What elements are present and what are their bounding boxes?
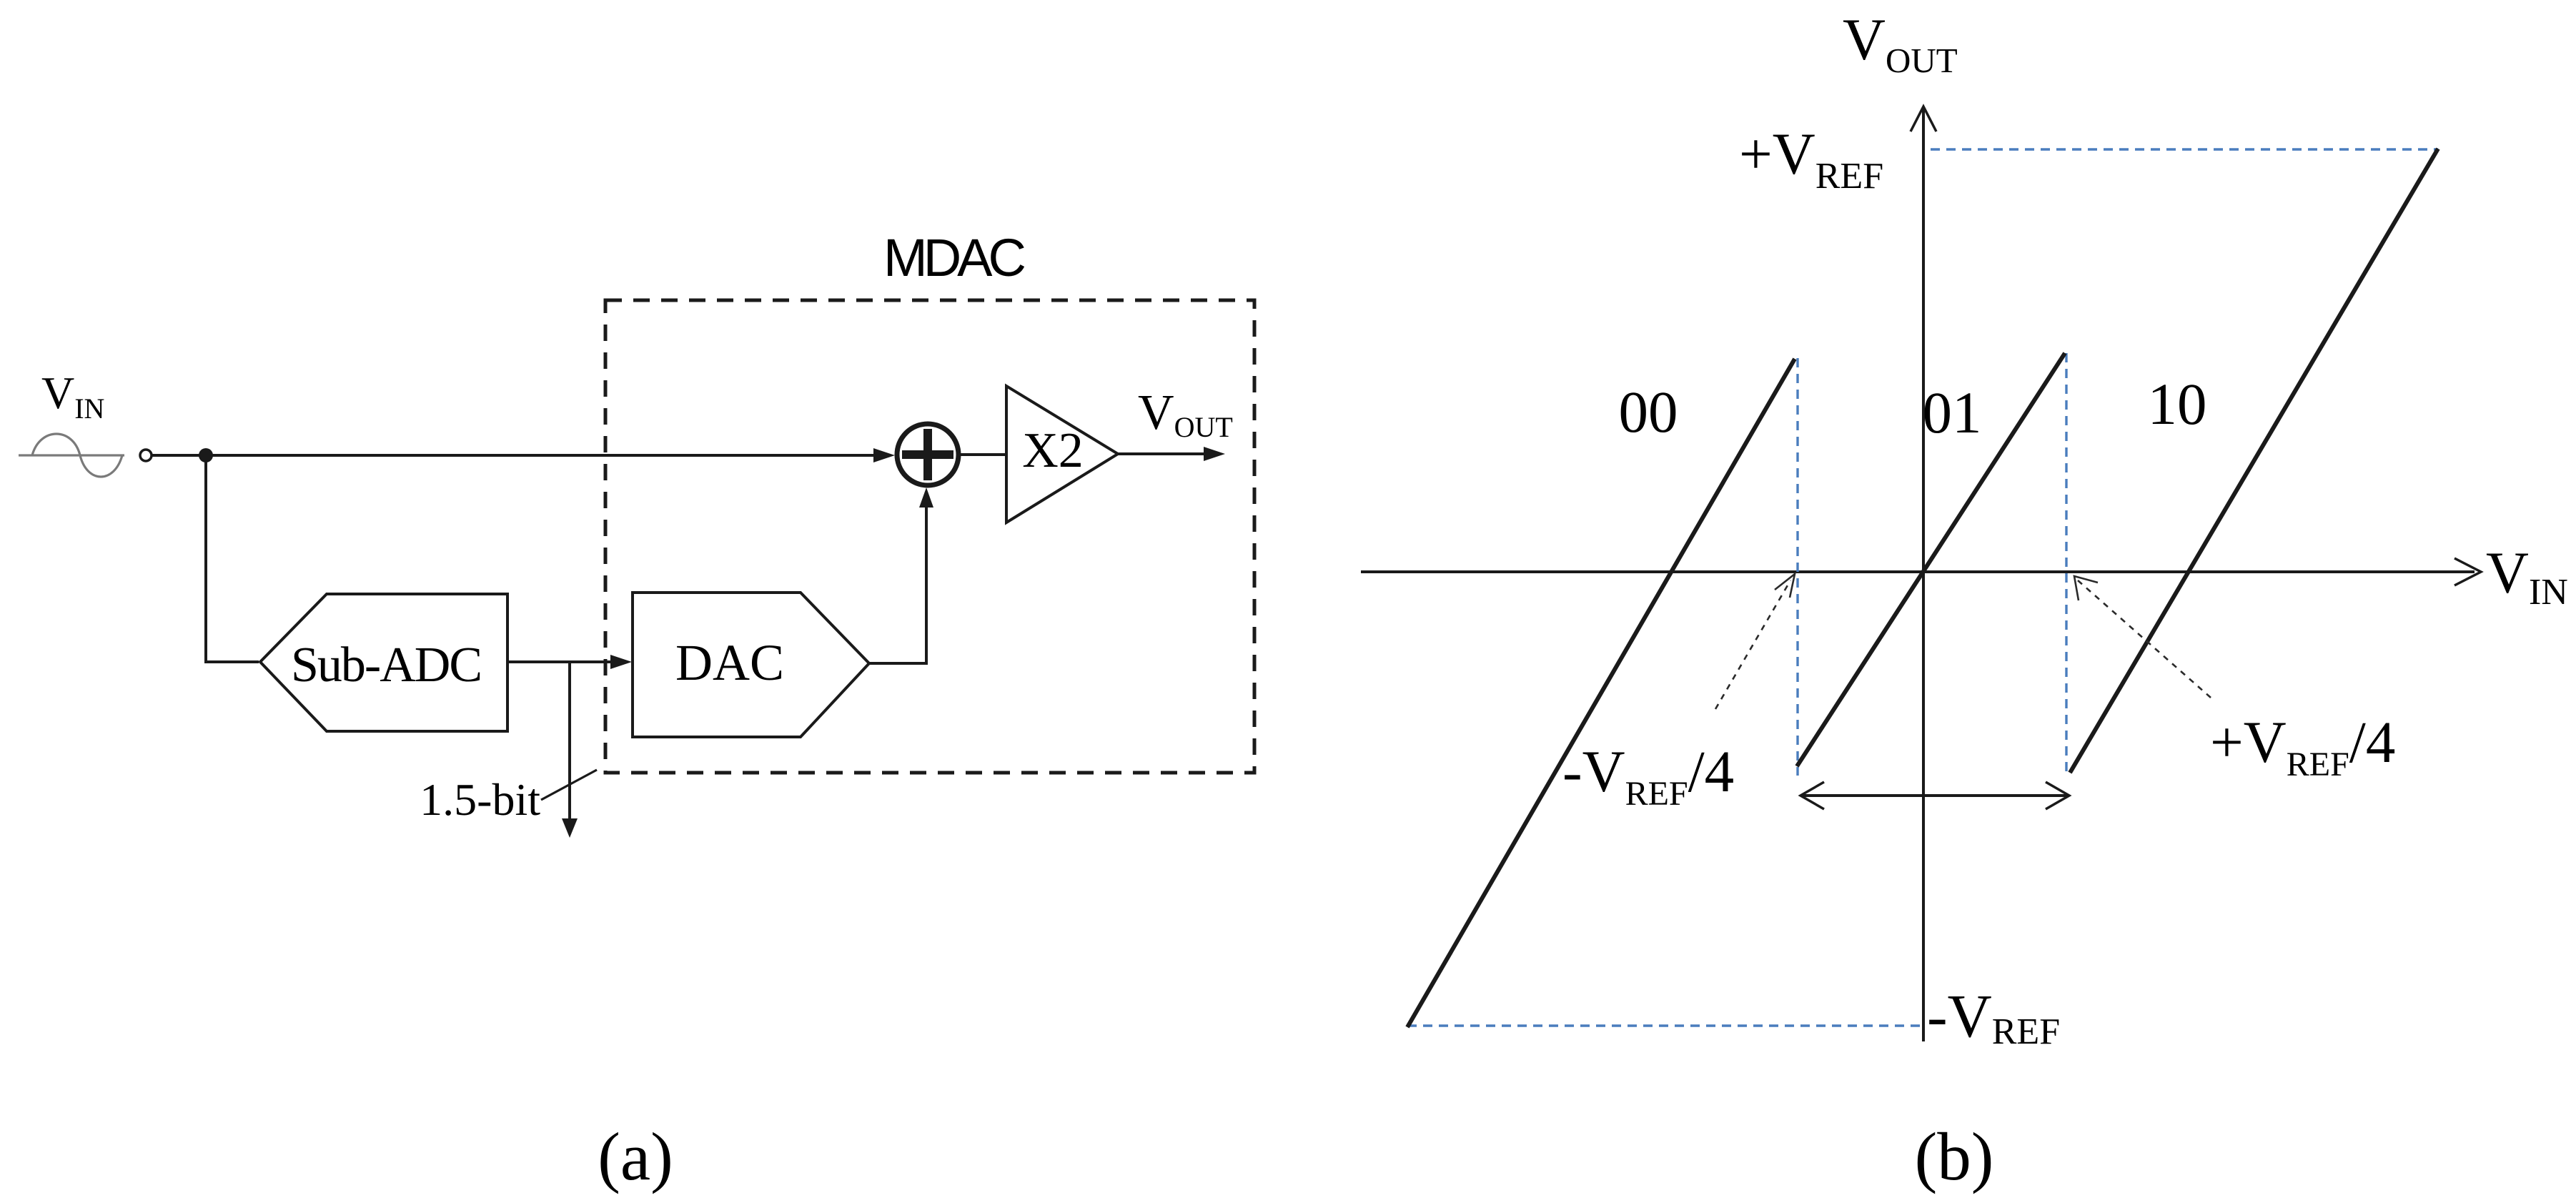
-VREF level label: [1927, 981, 2060, 1052]
wire Sub-ADC to DAC: [507, 655, 632, 669]
+VREF dashed level line: [1931, 148, 2438, 150]
svg-text:(a): (a): [598, 1119, 673, 1194]
transfer segment 10: [2070, 149, 2438, 773]
svg-text:Sub-ADC: Sub-ADC: [291, 638, 481, 693]
MDAC label: [883, 228, 1024, 287]
amplifier X2: [1006, 386, 1118, 523]
wire to Sub-ADC input: [204, 660, 259, 663]
svg-text:10: 10: [2148, 371, 2207, 437]
-VREF dashed level line: [1407, 1024, 1921, 1026]
input terminal: [140, 450, 152, 461]
caption (b): [1915, 1119, 1994, 1194]
X2 label: [1022, 423, 1084, 478]
junction node: [199, 448, 213, 462]
Sub-ADC label: [291, 638, 481, 693]
svg-text:1.5-bit: 1.5-bit: [420, 774, 540, 825]
wire terminal to junction: [152, 454, 206, 457]
svg-text:X2: X2: [1022, 423, 1084, 478]
svg-text:00: 00: [1619, 379, 1678, 445]
svg-text:(b): (b): [1915, 1119, 1994, 1194]
y-axis V_OUT: [1911, 107, 1936, 1041]
MDAC dashed boundary: [605, 300, 1254, 773]
+VREF/4 threshold label: [2210, 709, 2395, 783]
bus width tick: [541, 770, 597, 800]
wire summer to amplifier: [960, 453, 1006, 456]
label 01: [1923, 380, 1982, 445]
svg-text:DAC: DAC: [675, 634, 784, 691]
wire junction down: [204, 455, 207, 663]
+VREF level label: [1739, 121, 1883, 197]
-VREF/4 threshold label: [1562, 738, 1734, 813]
1.5-bit bus wire: [562, 662, 578, 838]
sine wave source symbol: [19, 434, 124, 477]
DAC label: [675, 634, 784, 691]
summer node: [897, 424, 958, 485]
leader arrow to -VREF/4 threshold: [1715, 574, 1795, 709]
-VREF/4 dashed vertical: [1796, 358, 1798, 776]
Sub-ADC block: [260, 594, 507, 731]
V_OUT axis label: [1843, 6, 1958, 80]
wire DAC to summer: [869, 487, 933, 663]
leader arrow to +VREF/4 threshold: [2074, 576, 2211, 698]
x-axis V_IN: [1361, 558, 2481, 585]
V_IN source label: [41, 367, 104, 425]
+VREF/4 dashed vertical: [2065, 353, 2067, 773]
wire main horizontal to summer: [206, 448, 895, 462]
svg-text:MDAC: MDAC: [883, 228, 1024, 287]
wire amplifier to output: [1118, 447, 1225, 461]
label 00: [1619, 379, 1678, 445]
transfer segment 00: [1407, 359, 1795, 1027]
label 10: [2148, 371, 2207, 437]
DAC block: [633, 593, 869, 737]
range double arrow: [1800, 782, 2069, 809]
1.5-bit label: [420, 774, 540, 825]
svg-text:01: 01: [1923, 380, 1982, 445]
caption (a): [598, 1119, 673, 1194]
V_OUT output label: [1138, 385, 1233, 443]
V_IN axis label: [2486, 540, 2568, 613]
transfer segment 01: [1797, 353, 2065, 766]
